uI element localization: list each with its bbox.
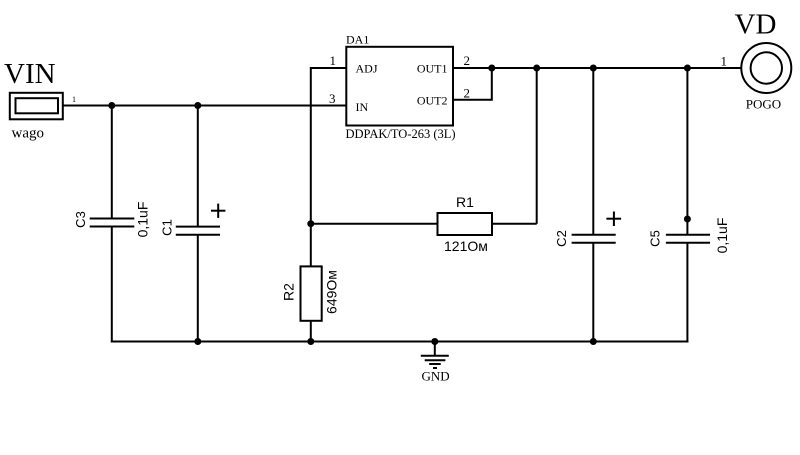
wire ADJ net: pin1 left then down to R1/R2 node	[311, 68, 347, 224]
junction C3 top	[108, 102, 115, 109]
svg-text:VD: VD	[735, 9, 777, 41]
svg-text:ADJ: ADJ	[356, 61, 378, 75]
svg-text:VIN: VIN	[4, 58, 56, 90]
svg-text:OUT2: OUT2	[417, 94, 448, 108]
svg-text:DDPAK/TO-263 (3L): DDPAK/TO-263 (3L)	[346, 127, 456, 141]
svg-text:R1: R1	[456, 194, 474, 210]
svg-text:0,1uF: 0,1uF	[714, 218, 730, 254]
wire output rail OUT1 to VD	[453, 67, 741, 69]
svg-text:R2: R2	[281, 283, 297, 301]
svg-text:2: 2	[464, 86, 471, 101]
junction ADJ/R1/R2 node	[307, 220, 314, 227]
IC DA1 regulator box	[346, 47, 453, 126]
svg-text:OUT1: OUT1	[417, 62, 448, 76]
svg-text:1: 1	[72, 95, 76, 104]
svg-text:wago: wago	[12, 125, 45, 141]
connector XP VIN (wago)	[10, 93, 63, 120]
plus sign C2	[606, 212, 621, 227]
junction GND tap	[431, 338, 438, 345]
svg-text:649Ом: 649Ом	[324, 270, 340, 314]
svg-text:3: 3	[329, 91, 336, 106]
svg-text:121Ом: 121Ом	[444, 238, 488, 254]
svg-text:C3: C3	[73, 211, 88, 228]
resistor R1	[311, 68, 537, 235]
svg-text:1: 1	[721, 54, 728, 69]
junction C1 top	[194, 102, 201, 109]
junction C2 top	[590, 65, 597, 72]
capacitor C1 (polarized)	[176, 106, 220, 342]
svg-text:2: 2	[464, 53, 471, 68]
junction C5 top	[684, 65, 691, 72]
wire bottom ground rail	[111, 341, 689, 343]
junction OUT2 joins OUT1	[488, 65, 495, 72]
ground symbol GND	[421, 342, 449, 369]
capacitor C5	[666, 68, 710, 343]
plus sign C1	[211, 204, 225, 218]
svg-text:0,1uF: 0,1uF	[135, 202, 151, 238]
resistor R2	[301, 224, 322, 342]
svg-text:GND: GND	[422, 369, 450, 384]
svg-text:C2: C2	[554, 230, 569, 247]
capacitor C2 (polarized)	[572, 68, 616, 342]
junction R2 bottom	[307, 338, 314, 345]
svg-text:C5: C5	[648, 230, 663, 247]
junction C1 bottom	[194, 338, 201, 345]
connector VD (POGO)	[741, 43, 791, 93]
wire input rail VIN to IC pin IN	[63, 105, 346, 107]
svg-text:DA1: DA1	[346, 33, 369, 47]
svg-text:POGO: POGO	[746, 97, 781, 112]
junction C5 wire segment joint	[684, 216, 691, 223]
svg-text:1: 1	[330, 53, 337, 68]
junction R1 top	[533, 65, 540, 72]
wire OUT2 stub	[453, 68, 492, 100]
svg-text:IN: IN	[356, 100, 369, 114]
junction C2 bottom	[590, 338, 597, 345]
capacitor C3	[90, 106, 135, 343]
svg-text:C1: C1	[160, 219, 175, 236]
